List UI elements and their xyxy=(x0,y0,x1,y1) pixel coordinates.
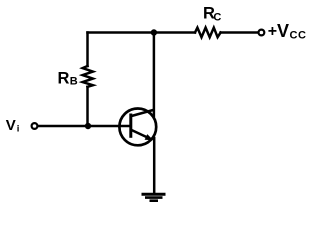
svg-text:B: B xyxy=(70,75,78,87)
svg-text:V: V xyxy=(6,117,16,134)
svg-text:V: V xyxy=(277,21,289,41)
svg-text:C: C xyxy=(213,12,221,24)
svg-text:R: R xyxy=(58,70,70,88)
svg-text:+: + xyxy=(268,23,277,40)
svg-text:CC: CC xyxy=(290,30,307,42)
svg-text:i: i xyxy=(17,123,20,134)
